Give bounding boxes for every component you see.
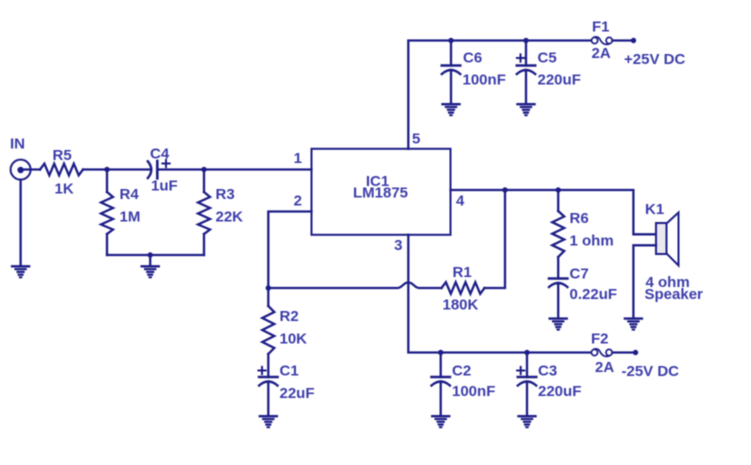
input terminal IN [11,160,31,180]
wire R3 top [203,170,205,193]
wire speaker bottom terminal [633,245,656,317]
wire pin 5 riser [408,41,591,149]
fuse F2 [591,349,612,357]
svg-text:5: 5 [412,131,420,148]
svg-text:1M: 1M [120,209,141,226]
resistor R4 [101,192,113,234]
wire ground stem center [149,255,151,265]
ground C7 [550,319,567,330]
capacitor C6 [442,41,460,104]
capacitor C7 [549,279,567,318]
wire R5 to C4 [83,168,151,170]
op-amp IC U1 LM1875 box [312,149,451,235]
wire R1 to output node [485,190,506,288]
svg-text:2A: 2A [592,45,611,62]
wire IN ground stem [19,180,21,266]
svg-text:K1: K1 [645,201,664,218]
svg-text:4: 4 [456,193,465,210]
svg-text:100nF: 100nF [452,383,495,400]
svg-text:R5: R5 [53,147,72,164]
ground C6 [443,104,460,115]
svg-text:1K: 1K [55,181,74,198]
svg-text:1uF: 1uF [151,178,178,195]
svg-text:2: 2 [294,193,302,210]
fuse F1 [592,37,613,45]
resistor R6 [552,190,564,257]
svg-text:IN: IN [10,136,25,153]
wire C1 stem [267,382,269,416]
node junction R5/R4/C4 [104,167,109,172]
ground C1 [260,416,277,427]
svg-text:C1: C1 [280,363,299,380]
svg-text:C5: C5 [538,50,557,67]
svg-text:0.22uF: 0.22uF [570,286,618,303]
svg-text:F2: F2 [591,331,609,348]
wire pin 4 output [451,190,657,234]
svg-text:1 ohm: 1 ohm [570,233,614,250]
svg-text:C2: C2 [452,363,471,380]
wire F2 to -25V [612,351,635,353]
svg-text:Speaker: Speaker [645,286,704,303]
wire IN to R5 [24,168,40,170]
svg-text:R4: R4 [120,186,140,203]
resistor R1 [442,282,485,294]
svg-text:+25V DC: +25V DC [624,51,685,68]
capacitor C4 [148,160,170,179]
node output/R1 [502,187,507,192]
svg-text:LM1875: LM1875 [353,185,408,202]
resistor R3 [198,192,210,234]
node junction ground bus [148,252,153,257]
wire pin 3 dropper [408,235,591,353]
node -25V terminal [633,350,638,355]
svg-text:3: 3 [394,237,402,254]
ground C5 [518,104,535,115]
wire C4 to pin 1 [157,168,311,170]
wire R2 to C1 [267,354,269,377]
svg-text:R1: R1 [453,264,472,281]
svg-text:180K: 180K [443,297,479,314]
node C5 top [523,38,528,43]
node junction pin2/R2/R1 [266,285,271,290]
ground IN [12,266,29,277]
svg-text:10K: 10K [280,331,308,348]
node C6 top [448,38,453,43]
ground C3 [519,416,536,427]
svg-text:R2: R2 [280,308,299,325]
node junction C4/R3/pin1 [201,167,206,172]
svg-text:C4: C4 [150,146,170,163]
capacitor C2 [432,353,450,416]
svg-text:F1: F1 [592,19,610,36]
svg-text:C3: C3 [538,363,557,380]
svg-text:22K: 22K [216,209,244,226]
node +25V terminal [631,38,636,43]
svg-text:R3: R3 [216,186,235,203]
wire pin 2 horizontal [268,212,311,289]
capacitor C1 [258,367,277,386]
svg-text:C7: C7 [570,266,589,283]
wire feedback with hop [268,282,441,288]
node C3 top [524,350,529,355]
wire F1 to +25V [612,39,633,41]
speaker K1 [656,213,679,266]
wire R6 to C7 [557,257,559,279]
svg-text:22uF: 22uF [280,385,315,402]
svg-text:220uF: 220uF [538,383,581,400]
svg-text:C6: C6 [463,50,482,67]
svg-text:2A: 2A [595,359,614,376]
ground C2 [432,416,449,427]
capacitor C3 [517,353,536,416]
svg-text:R6: R6 [570,210,589,227]
resistor R5 [40,164,83,176]
svg-text:220uF: 220uF [538,72,581,89]
resistor R2 [262,288,274,354]
node output/R6 [556,187,561,192]
wire R4 bottom [106,234,108,255]
svg-text:-25V DC: -25V DC [622,363,680,380]
svg-text:1: 1 [294,150,302,167]
ground speaker [625,319,642,330]
wire R3 bottom [203,234,205,255]
capacitor C5 [517,41,535,104]
node C2 top [438,350,443,355]
wire R4-R3 ground bus [107,254,204,256]
svg-text:100nF: 100nF [463,72,506,89]
wire R4 top [106,170,108,193]
ground center [142,266,159,277]
